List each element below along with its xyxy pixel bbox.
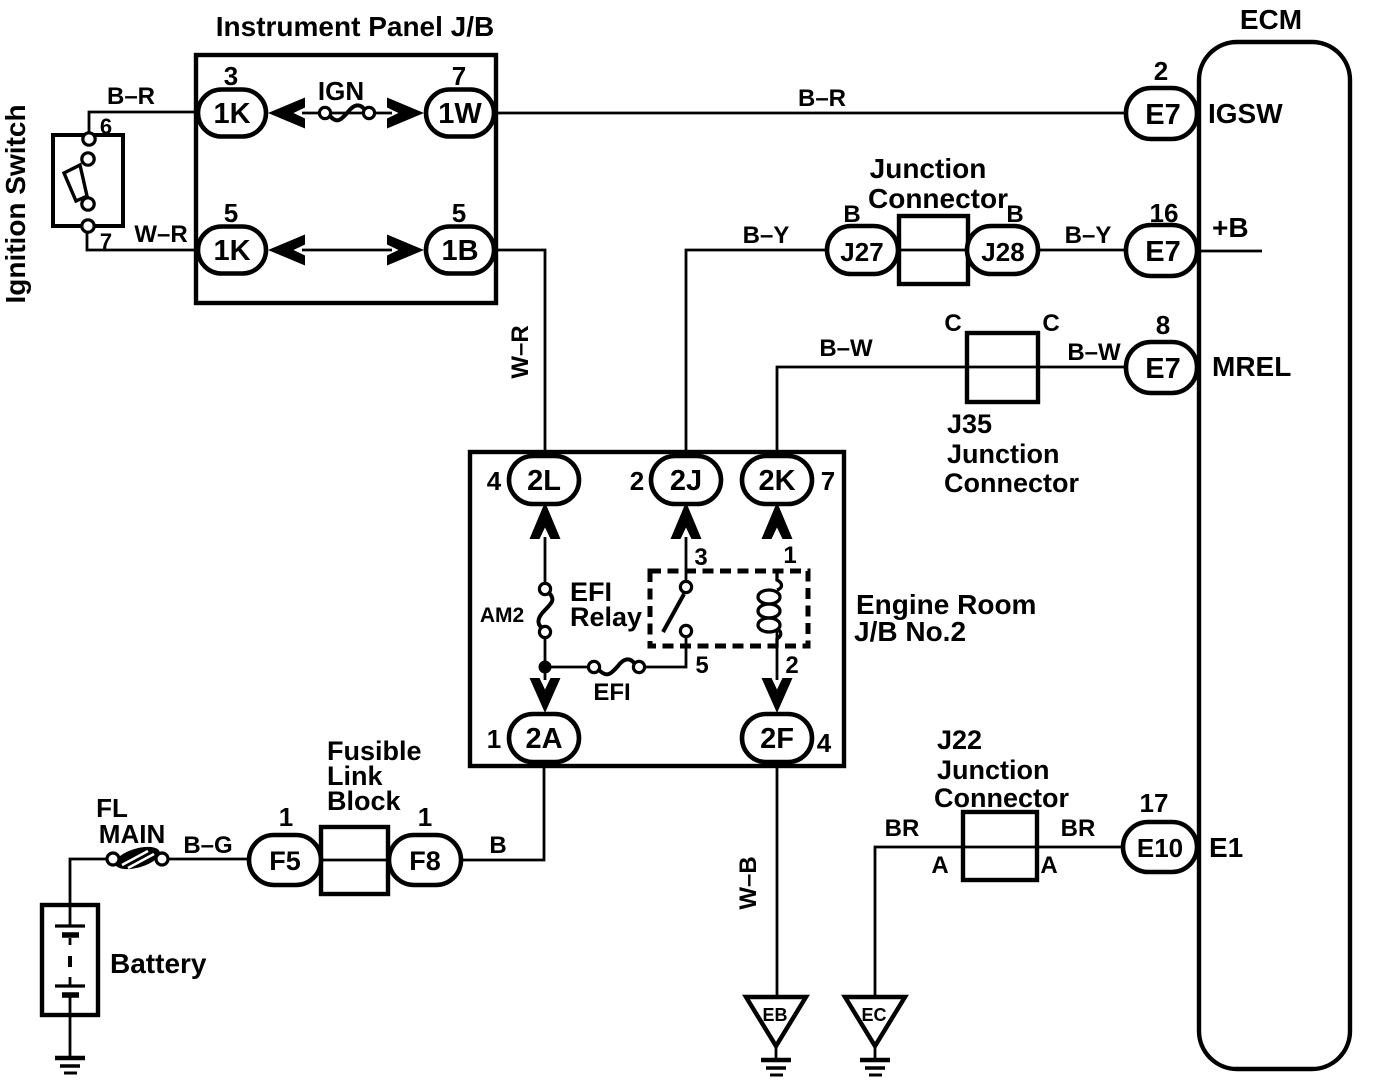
arrow into 1K pin 3 xyxy=(268,98,305,129)
wire 2L to AM2 fuse xyxy=(544,537,547,584)
ground below battery xyxy=(55,1058,85,1073)
svg-text:B–G: B–G xyxy=(183,832,232,859)
wire B-R from 1W to ECM E7 pin 2 xyxy=(492,112,1128,115)
svg-text:1: 1 xyxy=(418,802,432,832)
svg-text:J27: J27 xyxy=(840,237,883,267)
svg-text:7: 7 xyxy=(452,61,466,91)
svg-text:EFI: EFI xyxy=(593,679,630,706)
svg-text:7: 7 xyxy=(821,466,835,496)
svg-text:B–R: B–R xyxy=(107,83,155,110)
wire +B stub inside ECM xyxy=(1199,250,1262,253)
ground EC xyxy=(845,997,905,1075)
svg-text:5: 5 xyxy=(695,652,708,679)
J22 junction connector title xyxy=(934,725,1069,813)
svg-text:2: 2 xyxy=(785,652,798,679)
connector 1K pin 5 xyxy=(198,198,266,274)
fuse IGN xyxy=(318,76,375,120)
svg-text:1K: 1K xyxy=(213,98,250,130)
wire 2J to relay pin 3 xyxy=(685,537,688,583)
connector 1B pin 5 xyxy=(426,198,494,274)
svg-text:C: C xyxy=(1042,310,1059,337)
fuse EFI xyxy=(588,659,644,706)
engine room J/B No.2 title xyxy=(854,589,1036,647)
svg-text:3: 3 xyxy=(224,61,238,91)
connector 1K pin 3 xyxy=(198,61,266,137)
svg-text:2A: 2A xyxy=(525,723,562,755)
svg-text:4: 4 xyxy=(817,728,832,758)
svg-text:8: 8 xyxy=(1156,310,1170,340)
svg-text:Ignition Switch: Ignition Switch xyxy=(0,104,31,303)
fusible link FL MAIN xyxy=(107,843,168,874)
svg-text:ECM: ECM xyxy=(1240,4,1302,35)
connector F5 xyxy=(249,802,321,885)
svg-text:BR: BR xyxy=(885,815,920,842)
wire B-Y from J28 to ECM E7 pin 16 xyxy=(1036,249,1128,252)
wire W-R from ignition switch pin 7 to 1K xyxy=(87,231,200,250)
EFI relay label xyxy=(570,577,642,632)
svg-text:Junction: Junction xyxy=(937,755,1050,785)
connector 2F xyxy=(742,714,832,762)
wire node to EFI fuse xyxy=(545,666,590,669)
svg-text:E7: E7 xyxy=(1145,353,1180,385)
junction connector title xyxy=(868,153,1008,214)
svg-text:1K: 1K xyxy=(213,235,250,267)
connector E7 pin 16 xyxy=(1126,198,1197,276)
svg-text:EB: EB xyxy=(762,1005,787,1025)
junction connector J22 block xyxy=(963,812,1037,880)
svg-text:B: B xyxy=(489,832,506,859)
svg-text:2L: 2L xyxy=(527,465,561,497)
connector E7 pin 2 xyxy=(1126,56,1197,139)
svg-text:17: 17 xyxy=(1140,788,1169,818)
svg-text:Connector: Connector xyxy=(868,183,1008,214)
wire B-Y from 2J up to J27 xyxy=(686,250,829,458)
svg-text:E7: E7 xyxy=(1145,236,1180,268)
connector E10 pin 17 xyxy=(1123,788,1197,872)
EFI relay U1 xyxy=(650,571,808,647)
svg-text:B: B xyxy=(843,201,860,228)
svg-text:J28: J28 xyxy=(981,237,1024,267)
svg-text:16: 16 xyxy=(1150,198,1179,228)
svg-text:E7: E7 xyxy=(1145,99,1180,131)
svg-text:E1: E1 xyxy=(1209,832,1243,863)
svg-text:F5: F5 xyxy=(269,846,301,876)
svg-text:5: 5 xyxy=(224,198,238,228)
svg-text:B: B xyxy=(1006,201,1023,228)
wire EFI fuse to relay pin 5 xyxy=(645,636,686,667)
svg-text:Block: Block xyxy=(327,786,402,816)
connector F8 xyxy=(389,802,461,885)
svg-text:2F: 2F xyxy=(760,723,794,755)
wire B from F8 up to 2A xyxy=(461,760,544,860)
svg-text:6: 6 xyxy=(100,114,112,139)
svg-text:B–R: B–R xyxy=(798,85,846,112)
svg-text:3: 3 xyxy=(694,544,707,571)
svg-text:Junction: Junction xyxy=(947,439,1060,469)
svg-text:E10: E10 xyxy=(1137,833,1183,863)
connector 2K xyxy=(742,456,835,504)
wire to IGN fuse xyxy=(302,112,392,115)
svg-text:1B: 1B xyxy=(441,235,478,267)
svg-text:2J: 2J xyxy=(670,465,702,497)
arrow into 2A xyxy=(530,678,561,713)
wire from battery negative to ground xyxy=(69,1014,72,1057)
arrow into 2K xyxy=(762,502,793,539)
svg-text:1W: 1W xyxy=(438,98,482,130)
svg-text:7: 7 xyxy=(100,229,112,254)
svg-text:5: 5 xyxy=(452,198,466,228)
svg-text:AM2: AM2 xyxy=(480,604,524,627)
wire coil to 2F arrow xyxy=(776,630,779,680)
svg-text:1: 1 xyxy=(783,542,796,569)
arrow into 1B pin 5 xyxy=(387,235,424,266)
svg-text:2: 2 xyxy=(630,466,644,496)
svg-text:MREL: MREL xyxy=(1212,351,1291,382)
connector E7 pin 8 xyxy=(1126,310,1197,393)
svg-text:Relay: Relay xyxy=(570,602,642,632)
connector J27 xyxy=(827,226,898,274)
svg-text:A: A xyxy=(931,852,948,879)
junction node xyxy=(539,661,552,674)
svg-text:4: 4 xyxy=(487,466,502,496)
svg-text:IGSW: IGSW xyxy=(1208,98,1283,129)
svg-text:A: A xyxy=(1040,852,1057,879)
battery xyxy=(42,905,207,1015)
fusible link block title xyxy=(327,736,422,816)
wire AM2 to 2A arrow xyxy=(544,636,547,680)
junction connector block xyxy=(899,216,968,284)
fusible link block xyxy=(321,827,388,894)
svg-text:1: 1 xyxy=(487,724,501,754)
svg-text:Battery: Battery xyxy=(110,948,207,979)
arrow into 2F xyxy=(762,678,793,713)
fuse AM2 xyxy=(480,583,553,637)
svg-text:IGN: IGN xyxy=(318,76,364,106)
svg-text:Junction: Junction xyxy=(870,153,987,184)
svg-text:J35: J35 xyxy=(947,409,992,439)
svg-text:C: C xyxy=(944,310,961,337)
wire B-W from 2K up to ECM E7 pin 8 xyxy=(777,367,1128,458)
svg-text:F8: F8 xyxy=(409,846,441,876)
arrow into 1W pin 7 xyxy=(387,98,424,129)
junction connector J35 block xyxy=(967,333,1038,402)
svg-text:W–B: W–B xyxy=(735,856,762,909)
svg-text:2K: 2K xyxy=(758,465,795,497)
svg-text:B–Y: B–Y xyxy=(743,222,790,249)
svg-text:MAIN: MAIN xyxy=(99,819,165,849)
arrow into 2J xyxy=(671,502,702,539)
wire B-R from ignition switch pin 6 to 1K xyxy=(89,112,198,134)
ignition switch SW1 xyxy=(0,104,123,303)
ground EB xyxy=(746,997,806,1075)
wire between arrows row 2 xyxy=(302,249,392,252)
svg-text:Connector: Connector xyxy=(944,468,1079,498)
svg-text:B–Y: B–Y xyxy=(1065,222,1112,249)
svg-text:J/B No.2: J/B No.2 xyxy=(854,616,966,647)
instrument panel J/B box xyxy=(196,11,496,303)
wire W-R from 1B down to 2L xyxy=(492,250,545,458)
connector 1W pin 7 xyxy=(426,61,494,137)
svg-text:EC: EC xyxy=(861,1005,886,1025)
wire from battery positive to FL MAIN xyxy=(70,859,109,906)
svg-text:B–W: B–W xyxy=(819,335,873,362)
svg-text:Connector: Connector xyxy=(934,783,1069,813)
svg-text:2: 2 xyxy=(1154,56,1168,86)
wire BR from ground EC up through J22 to E10 xyxy=(875,847,1125,998)
arrow into 1K pin 5 xyxy=(268,235,305,266)
wire W-B from 2F down to ground EB xyxy=(776,760,779,999)
svg-text:W–R: W–R xyxy=(134,221,187,248)
J35 junction connector title xyxy=(944,409,1079,498)
svg-text:W–R: W–R xyxy=(507,325,534,378)
svg-text:B–W: B–W xyxy=(1067,339,1121,366)
connector 2L xyxy=(487,456,579,504)
connector 2A xyxy=(487,714,579,762)
connector 2J xyxy=(630,456,721,504)
label FL MAIN xyxy=(96,793,165,849)
wire B-G from FL MAIN to F5 xyxy=(166,858,251,861)
engine room J/B No.2 box xyxy=(470,452,844,766)
arrow into 2L xyxy=(530,502,561,539)
svg-text:J22: J22 xyxy=(937,725,982,755)
svg-text:1: 1 xyxy=(279,802,293,832)
svg-text:BR: BR xyxy=(1061,815,1096,842)
ECM box xyxy=(1199,4,1350,1069)
connector J28 xyxy=(967,226,1038,274)
svg-text:+B: +B xyxy=(1212,212,1249,243)
svg-text:Instrument Panel J/B: Instrument Panel J/B xyxy=(216,11,495,42)
